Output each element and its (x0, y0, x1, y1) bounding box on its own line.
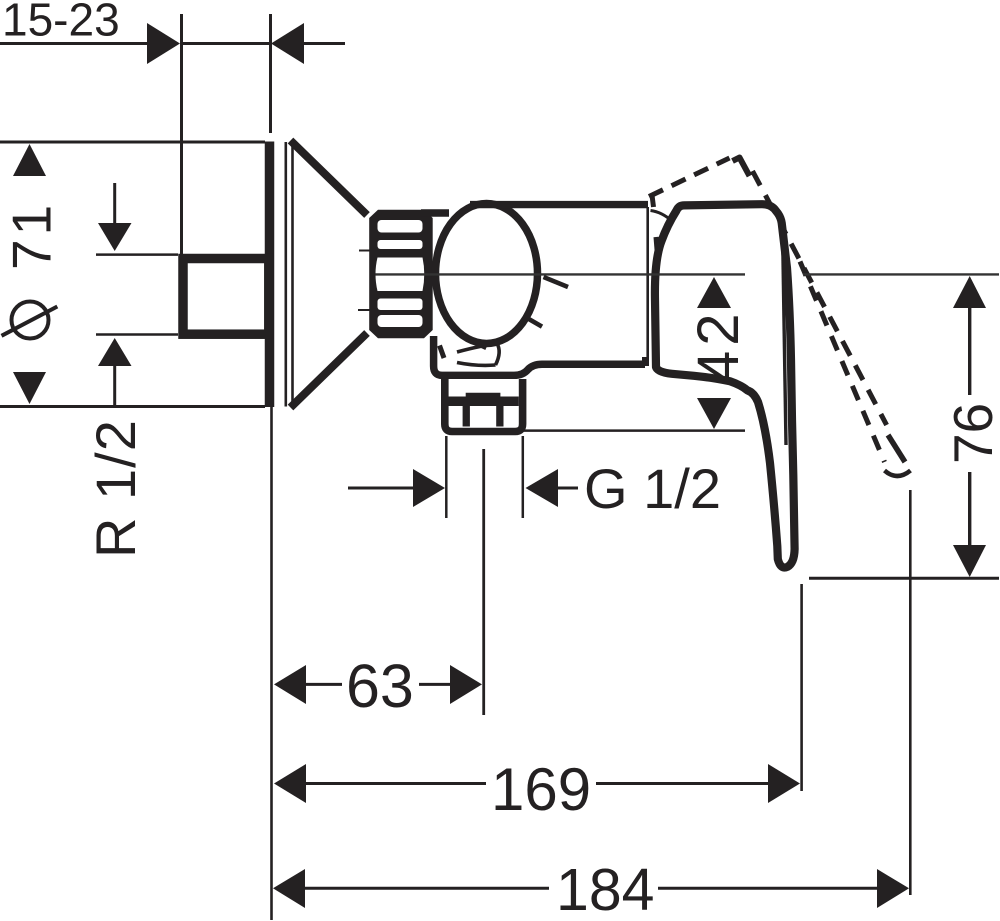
extension line outlet bottom (42) (521, 429, 745, 432)
extension line solid lever tip (800, 584, 803, 791)
body end-cap arc (651, 211, 673, 222)
dim 63 line right (419, 683, 451, 686)
extension line wall face upper (180, 14, 183, 255)
dim 184 arrow left-pointing (273, 869, 305, 908)
extension line dashed lever tip (909, 490, 912, 895)
extension line R12 top (96, 253, 178, 256)
dim 63 arrow right-pointing (450, 665, 482, 704)
dashed open lever pivot dash upper (652, 195, 654, 207)
outlet thread bar right (496, 406, 503, 427)
svg-text:169: 169 (491, 756, 591, 823)
body bottom profile with step (434, 336, 645, 375)
body top line (421, 209, 449, 217)
dim 15-23 arrow right-pointing (147, 23, 180, 64)
escutcheon wall plate thin line (284, 142, 287, 407)
escutcheon wall plate thick line (265, 142, 275, 408)
dashed open lever tip arc (885, 471, 911, 477)
solid lever handle (655, 204, 795, 567)
dim 76 stem lower (968, 472, 971, 546)
svg-text:71: 71 (1, 201, 63, 270)
body bottom end lip (642, 357, 647, 366)
dim 15-23 tail right (304, 42, 345, 45)
extension line outlet right (522, 436, 525, 518)
spout collar right edge (496, 344, 500, 366)
spout collar bottom edge (457, 363, 496, 366)
dim 63 arrow left-pointing (274, 665, 306, 704)
svg-text:184: 184 (556, 857, 654, 921)
outlet union outer (445, 379, 523, 432)
dim 169 line right (596, 782, 769, 785)
spout collar left mark (440, 346, 445, 359)
dim R12 stem upper (113, 183, 116, 224)
svg-text:63: 63 (346, 652, 414, 720)
union nut slot 1 (378, 220, 423, 233)
dashed open lever outer edge (753, 171, 887, 425)
dim 76 stem upper (968, 307, 971, 395)
dim dia71 arrow up (13, 144, 46, 176)
extension line dia71 top (0, 141, 265, 144)
dim G12 arrow right-pointing (413, 469, 445, 507)
spout collar top edge (457, 344, 497, 353)
spout collar tick (479, 345, 487, 349)
dim 76 arrow down (953, 545, 986, 577)
escutcheon cone bottom slope (291, 333, 368, 408)
dashed open lever tip steep dash (888, 435, 905, 462)
dashed open lever inner edge (800, 262, 885, 463)
escutcheon cone fill (293, 142, 367, 407)
extension line wall lower (270, 407, 273, 920)
valve dome ellipse (436, 204, 538, 344)
dim 169 arrow left-pointing (274, 764, 306, 803)
body right joint line (646, 207, 649, 366)
outlet hex profile bar (449, 393, 519, 406)
svg-text:76: 76 (942, 403, 1000, 464)
dim dia71 arrow down (13, 372, 46, 404)
dim 184 line left (304, 887, 549, 890)
nut left tick lower (358, 309, 378, 311)
extension line R12 bottom (96, 333, 178, 336)
svg-text:42: 42 (686, 308, 751, 383)
escutcheon cone top slope (291, 141, 368, 216)
dim 184 arrow right-pointing (877, 869, 909, 908)
dim 169 line left (305, 782, 486, 785)
dim R12 arrow up (98, 338, 132, 366)
dim 76 arrow up (953, 276, 986, 308)
union nut middle slot (376, 258, 425, 292)
dome radiating tick upper (544, 277, 569, 287)
dashed open lever inner pivot dash (686, 261, 688, 280)
dim R12 arrow down (98, 223, 132, 251)
dome radiating tick lower (526, 318, 542, 327)
union nut slot 3 (378, 299, 423, 311)
label dia 71 slash (2, 307, 58, 336)
extension line outlet left (445, 436, 448, 518)
dim 169 arrow right-pointing (768, 764, 800, 803)
dim 15-23 line middle (182, 42, 271, 45)
dim G12 tail left (348, 487, 413, 490)
dim 63 line left (305, 683, 342, 686)
dim R12 stem lower (113, 365, 116, 405)
solid lever inner contour (783, 228, 787, 445)
nut left tick upper (359, 250, 378, 252)
supply elbow square (183, 259, 269, 335)
union nut slot 2 (378, 240, 423, 249)
dashed open lever corner mark (733, 158, 750, 177)
body top line main (470, 201, 648, 208)
extension line outlet axis (482, 449, 485, 715)
union nut slot 4 (378, 315, 423, 327)
extension line lever bottom (76) (809, 577, 999, 580)
extension line fitting face (269, 14, 272, 133)
dashed open lever top edge (649, 158, 730, 197)
svg-text:G 1/2: G 1/2 (584, 457, 721, 520)
outlet thread bar left (463, 406, 470, 427)
dim G12 tail right (557, 487, 578, 490)
svg-text:15-23: 15-23 (2, 0, 120, 46)
dashed open lever pivot dash lower (656, 237, 658, 262)
dim 42 arrow down (697, 398, 731, 429)
union nut body (black with chamfered corners) (369, 210, 433, 338)
dim 15-23 arrow left-pointing (271, 23, 304, 64)
dim G12 arrow left-pointing (526, 469, 559, 507)
label dia 71 circle symbol (12, 302, 49, 339)
svg-text:R 1/2: R 1/2 (84, 419, 147, 558)
dim 42 arrow up (697, 277, 731, 308)
escutcheon cone base edge (291, 141, 294, 407)
centerline right segment (803, 273, 999, 275)
dim 184 line right (658, 887, 878, 890)
dim 15-23 line left (0, 42, 147, 45)
centerline left segment (376, 273, 746, 275)
extension line dia71 bottom (0, 405, 265, 408)
